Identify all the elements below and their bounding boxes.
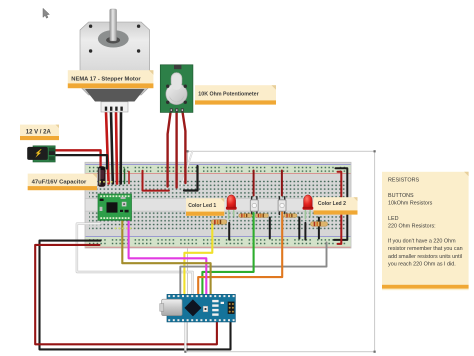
svg-text:Color Led 1: Color Led 1 (188, 203, 216, 209)
svg-text:220 Ohm Resistors:: 220 Ohm Resistors: (388, 223, 436, 229)
svg-text:you reach 220 Ohm as I did.: you reach 220 Ohm as I did. (388, 261, 456, 267)
svg-text:RESISTORS: RESISTORS (388, 178, 419, 184)
svg-text:BUTTONS: BUTTONS (388, 193, 414, 199)
svg-text:10kOhm Resistors: 10kOhm Resistors (388, 201, 433, 207)
svg-text:47uF/16V Capacitor: 47uF/16V Capacitor (32, 179, 87, 185)
svg-text:add smaller resistors units un: add smaller resistors units until (388, 254, 462, 260)
svg-text:resistor remember that you can: resistor remember that you can (388, 246, 463, 252)
svg-text:12 V / 2A: 12 V / 2A (26, 130, 52, 136)
svg-text:LED: LED (388, 216, 399, 222)
svg-text:NEMA 17 - Stepper Motor: NEMA 17 - Stepper Motor (71, 76, 141, 82)
svg-text:10K Ohm Potentiometer: 10K Ohm Potentiometer (198, 92, 258, 98)
svg-text:If you don't have a 220 Ohm: If you don't have a 220 Ohm (388, 239, 456, 245)
svg-text:Color Led 2: Color Led 2 (318, 201, 346, 207)
